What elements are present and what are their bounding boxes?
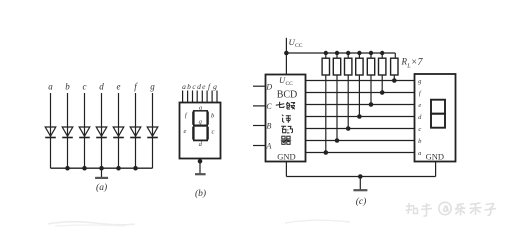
junction node rail R3 <box>346 51 350 55</box>
wire segment c (vertical lead 3) <box>84 93 86 168</box>
junction node rail R4 <box>357 51 361 55</box>
svg-text:f: f <box>185 112 188 119</box>
wire decoder GND drop <box>285 162 287 177</box>
junction node rail R1 <box>324 51 328 55</box>
decoder text qi (Chinese device) <box>281 136 291 144</box>
svg-text:f: f <box>208 82 211 91</box>
wire row a <box>306 152 415 154</box>
segment a bar <box>193 110 208 112</box>
wire common pin (part b) <box>199 159 201 174</box>
wire segment g (vertical lead 7) <box>152 93 154 168</box>
segment c bar <box>206 127 208 140</box>
LED VD6 <box>130 127 141 138</box>
pin 6 (part b) <box>206 91 208 103</box>
svg-text:a: a <box>48 82 53 92</box>
wire row d <box>306 116 415 118</box>
junction node R7-g <box>392 78 397 83</box>
wire segment a (vertical lead 1) <box>50 93 52 168</box>
junction node common (part b) <box>198 159 203 164</box>
resistor R7 <box>391 58 398 75</box>
junction node Ucc <box>284 51 289 56</box>
junction node ground (part c) <box>358 174 363 179</box>
junction node 4 <box>99 166 104 171</box>
svg-text:b: b <box>211 113 215 120</box>
junction node rail R2 <box>335 51 339 55</box>
svg-text:f: f <box>419 90 422 97</box>
wire row b <box>306 140 415 142</box>
smudge bottom center <box>285 220 350 223</box>
svg-text:f: f <box>134 82 138 92</box>
wire R3 drop <box>347 75 349 129</box>
pin 2 (part b) <box>187 91 189 103</box>
pin D stub <box>253 85 266 87</box>
display digit upper square <box>431 100 445 114</box>
wire R1 drop <box>325 75 327 153</box>
display package outline (part b) <box>180 103 221 159</box>
pin C stub <box>253 105 266 107</box>
pin 1 (part b) <box>182 91 184 103</box>
svg-text:a: a <box>199 104 202 111</box>
wire segment d (vertical lead 4) <box>101 93 103 168</box>
svg-text:d: d <box>199 141 203 148</box>
svg-text:(a): (a) <box>96 182 107 193</box>
ground (part a) <box>95 168 108 178</box>
svg-text:d: d <box>99 82 104 92</box>
wire R2 drop <box>336 75 338 141</box>
junction node R2-b <box>335 138 340 143</box>
smudge bottom left <box>48 222 135 225</box>
LED VD2 <box>62 127 73 138</box>
svg-text:c: c <box>418 126 421 133</box>
svg-text:g: g <box>213 82 217 91</box>
LED VD7 <box>147 127 158 138</box>
svg-text:CC: CC <box>286 81 294 87</box>
wire row g <box>306 80 415 82</box>
svg-text:a: a <box>418 150 421 157</box>
wire R6 drop <box>381 75 383 93</box>
svg-text:a: a <box>182 82 186 91</box>
svg-text:(b): (b) <box>195 188 206 199</box>
junction node rail R6 <box>380 51 384 55</box>
resistor R1 <box>322 53 329 75</box>
decoder text qi duan (Chinese seven segment) <box>276 102 295 109</box>
svg-text:c: c <box>212 129 215 136</box>
svg-text:g: g <box>150 82 155 92</box>
junction node 6 <box>133 166 138 171</box>
svg-text:D: D <box>265 82 272 91</box>
svg-text:B: B <box>267 122 272 131</box>
resistor R2 <box>333 53 340 75</box>
svg-text:BCD: BCD <box>277 90 298 101</box>
segment e bar <box>192 127 194 140</box>
ground (part b) <box>195 173 206 175</box>
svg-text:GND: GND <box>277 152 295 162</box>
svg-text:e: e <box>184 128 187 135</box>
display DS1 outline <box>415 74 456 162</box>
wire row f <box>306 92 415 94</box>
svg-text:GND: GND <box>426 151 444 161</box>
svg-text:A: A <box>266 142 272 151</box>
svg-text:×7: ×7 <box>411 57 424 68</box>
svg-text:b: b <box>187 82 191 91</box>
pin 3 (part b) <box>192 91 194 103</box>
segment f bar <box>192 112 194 125</box>
pin 5 (part b) <box>201 91 203 103</box>
pin 8 (part b) <box>216 91 218 103</box>
svg-text:e: e <box>418 102 421 109</box>
svg-text:e: e <box>117 82 121 92</box>
decoder U1 outline <box>266 75 306 162</box>
pin A stub <box>253 145 266 147</box>
net Ucc label <box>289 37 303 49</box>
junction node R5-e <box>369 102 374 107</box>
junction node R4-d <box>357 114 362 119</box>
svg-text:b: b <box>65 82 70 92</box>
wire R5 drop <box>370 75 372 105</box>
ground (part c) <box>353 177 367 191</box>
wire display GND drop <box>435 162 437 177</box>
wire supply rail <box>286 52 395 54</box>
junction node 5 <box>116 166 121 171</box>
wire R7 drop <box>393 75 395 81</box>
resistor R5 <box>367 53 374 75</box>
decoder Ucc pin label <box>279 75 293 87</box>
wire segment f (vertical lead 6) <box>135 93 137 168</box>
segment b bar <box>206 112 208 125</box>
resistor R4 <box>356 53 363 75</box>
junction node R1-a <box>324 150 329 155</box>
decoder text yi (Chinese translate) <box>282 115 291 123</box>
decoder text ma (Chinese code) <box>281 126 292 133</box>
LED VD5 <box>113 127 124 138</box>
junction node rail R5 <box>369 51 373 55</box>
resistor R6 <box>379 53 386 75</box>
junction node 2 <box>65 166 70 171</box>
svg-text:C: C <box>266 102 272 111</box>
wire segment e (vertical lead 5) <box>118 93 120 168</box>
wire row c <box>306 128 415 130</box>
resistor R3 <box>345 53 352 75</box>
svg-text:e: e <box>202 82 206 91</box>
LED VD1 <box>45 127 56 138</box>
segment g bar <box>193 124 208 126</box>
wire R4 drop <box>358 75 360 117</box>
wire segment b (vertical lead 2) <box>67 93 69 168</box>
LED VD3 <box>79 127 90 138</box>
svg-text:c: c <box>83 82 87 92</box>
svg-text:c: c <box>192 82 196 91</box>
svg-text:d: d <box>418 114 422 121</box>
display digit lower square <box>431 114 445 128</box>
junction node R6-f <box>380 90 385 95</box>
segment d bar <box>193 139 208 141</box>
pin 7 (part b) <box>211 91 213 103</box>
svg-text:g: g <box>418 78 422 85</box>
pin 4 (part b) <box>196 91 198 103</box>
wire Ucc feed <box>285 38 287 75</box>
watermark zhihu @huadongzi <box>406 202 497 216</box>
junction node R3-c <box>346 126 351 131</box>
wire common cathode bus <box>51 167 153 169</box>
pin B stub <box>253 125 266 127</box>
svg-text:b: b <box>418 138 422 145</box>
svg-text:d: d <box>197 82 201 91</box>
junction node 3 <box>82 166 87 171</box>
wire row e <box>306 104 415 106</box>
label RL x7 <box>401 57 424 70</box>
LED VD4 <box>96 127 107 138</box>
svg-text:CC: CC <box>295 43 303 49</box>
svg-text:(c): (c) <box>356 196 367 207</box>
wire ground bus (part c) <box>286 176 435 178</box>
